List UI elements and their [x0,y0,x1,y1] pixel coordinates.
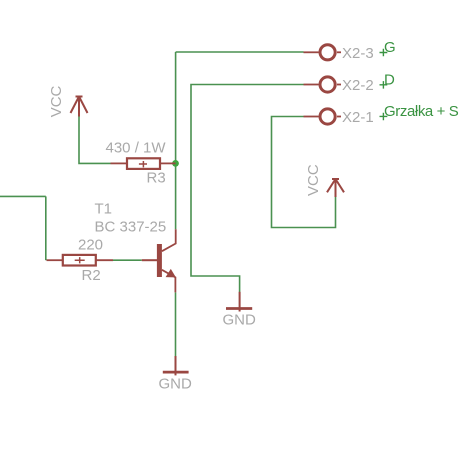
resistor R2 [47,255,114,266]
svg-text:GND: GND [223,311,257,328]
connector pin X2-3 [304,45,342,60]
net label G [384,39,396,56]
wire emitter to GND [175,292,177,356]
label VCC (left, rotated) [48,85,65,117]
wire X2-3 horizontal [176,51,304,53]
net label D anchor cross [380,81,388,89]
wire VCC to R3 [79,117,111,164]
label GND (emitter) [159,376,193,393]
svg-text:G: G [384,39,396,56]
svg-text:X2-3: X2-3 [342,45,374,62]
svg-text:X2-1: X2-1 [342,109,374,126]
value 220 [78,236,103,253]
connector pin X2-2 [304,77,342,92]
svg-text:VCC: VCC [305,164,322,196]
net label Grzalka anchor cross [380,113,388,121]
wire X2-1 to VCC loop [272,117,336,228]
value 430 / 1W [106,140,167,157]
wire left feed vertical [45,196,47,260]
ground GND (right) [226,292,252,312]
svg-text:T1: T1 [95,200,113,217]
name R2 [82,267,101,284]
label GND (right) [223,311,257,328]
name X2-3 [342,45,374,62]
junction node [172,160,179,167]
svg-text:D: D [384,72,395,89]
svg-text:X2-2: X2-2 [342,77,374,94]
net label G anchor cross [380,49,388,57]
wire X2-2 net [191,85,304,293]
net label Grzałka + S [384,103,459,120]
name T1 [95,200,113,217]
wire R2 to base [113,259,142,261]
net label D [384,72,395,89]
svg-text:GND: GND [159,376,193,393]
name X2-2 [342,77,374,94]
wire collector bus vertical [175,52,177,229]
svg-text:VCC: VCC [48,85,65,117]
connector pin X2-1 [304,109,342,124]
svg-text:BC 337-25: BC 337-25 [95,218,167,235]
value BC 337-25 [95,218,167,235]
wire left feed horizontal [0,195,46,197]
svg-text:430 / 1W: 430 / 1W [106,140,167,157]
svg-text:220: 220 [78,236,103,253]
svg-text:R2: R2 [82,267,101,284]
supply symbol VCC (right) [327,179,344,197]
svg-text:R3: R3 [147,169,166,186]
label VCC (right, rotated) [305,164,322,196]
svg-text:Grzałka + S: Grzałka + S [384,103,459,120]
supply symbol VCC (left) [71,97,88,117]
name X2-1 [342,109,374,126]
transistor T1 [142,229,176,292]
resistor R3 [111,158,176,169]
ground GND (emitter) [163,356,189,375]
name R3 [147,169,166,186]
